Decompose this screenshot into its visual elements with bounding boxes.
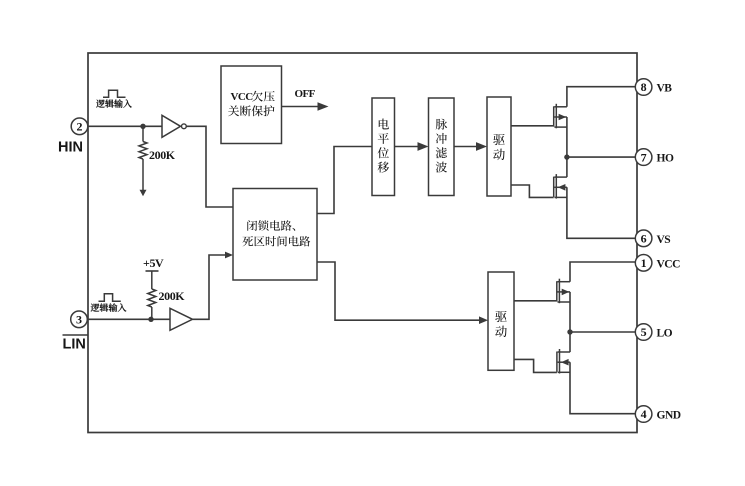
wire level-shift to pulse-filter: [395, 146, 419, 148]
+5V supply symbol: [146, 271, 159, 289]
svg-text:GND: GND: [657, 410, 681, 422]
down arrow (VSS return): [140, 190, 147, 197]
wire buffer output to latch block: [193, 255, 227, 319]
pin 5 LO: [635, 324, 652, 341]
label drive (high side): [493, 134, 505, 160]
svg-text:2: 2: [77, 120, 83, 134]
svg-text:VB: VB: [657, 83, 673, 95]
pin 7 HO: [635, 149, 652, 166]
label logic-input (HIN): [96, 99, 132, 107]
svg-text:6: 6: [641, 232, 647, 246]
svg-text:8: 8: [641, 80, 647, 94]
svg-text:HO: HO: [657, 153, 674, 165]
svg-text:OFF: OFF: [295, 88, 316, 100]
pin 8 VB: [635, 79, 652, 96]
label latch-circuit line1: [247, 220, 295, 231]
svg-text:3: 3: [76, 313, 82, 327]
label drive (low side): [495, 311, 507, 337]
transistor Q4 (low-side N-ch): [557, 349, 570, 374]
svg-text:200K: 200K: [159, 289, 186, 303]
node HO: [564, 154, 569, 159]
wire OFF output: [282, 106, 321, 108]
pulse waveform symbol (HIN logic input): [103, 90, 126, 97]
buffer U2 (LIN buffer): [170, 308, 193, 330]
IC boundary box: [88, 53, 637, 433]
wire LO to pin5: [570, 331, 636, 333]
node HIN junction: [140, 124, 145, 129]
pulse waveform symbol (LIN logic input): [99, 294, 121, 301]
transistor Q3 (low-side P-ch): [557, 279, 570, 304]
wire VCC rail: [570, 262, 636, 282]
resistor R1 200K (HIN pulldown): [139, 126, 147, 190]
svg-text:LO: LO: [657, 328, 673, 340]
block U8 low-side driver: [488, 272, 514, 370]
svg-text:VCC: VCC: [657, 258, 681, 270]
pin 6 VS: [635, 230, 652, 247]
label pulse-filter (vertical): [436, 119, 447, 173]
svg-text:5: 5: [641, 325, 647, 339]
label logic-input (LIN): [91, 303, 127, 311]
label dead-time-circuit line2: [242, 236, 310, 247]
arrowhead into low-side driver: [479, 316, 488, 324]
wire high driver to Q2 gate (jog): [511, 185, 554, 197]
label qianya (U4 line1): [252, 91, 275, 102]
svg-text:+5V: +5V: [143, 256, 164, 270]
block U4 VCC undervoltage shutdown protection: [221, 66, 282, 144]
block U3 latch + dead-time circuit: [233, 189, 317, 281]
wire pin3 to buffer input: [88, 318, 170, 320]
wire high driver to Q1 gate: [511, 125, 554, 127]
wire pin2 to inverter input: [88, 125, 162, 127]
svg-text:200K: 200K: [149, 148, 176, 162]
svg-text:HIN: HIN: [58, 140, 83, 156]
node LO: [567, 329, 572, 334]
svg-text:LIN: LIN: [63, 337, 86, 353]
block U6 pulse filter: [429, 98, 455, 196]
label guanduan-baohu (U4 line2): [228, 105, 274, 116]
arrowhead into latch block: [225, 252, 233, 259]
label LIN with overline: [63, 335, 89, 353]
wire latch to low-side driver: [317, 262, 480, 320]
pin 3 /LIN: [71, 311, 88, 328]
wire low driver to Q3 gate: [514, 300, 557, 302]
wire VS net: [567, 187, 636, 238]
node LIN junction: [148, 317, 153, 322]
label level-shift (vertical): [378, 119, 390, 173]
svg-text:VS: VS: [657, 234, 671, 246]
wire LO net vertical: [569, 292, 571, 352]
wire latch to level-shift: [317, 147, 372, 214]
wire HO net vertical: [566, 117, 568, 177]
block U7 high-side driver: [487, 97, 511, 196]
svg-text:1: 1: [641, 256, 647, 270]
wire pulse-filter to high driver: [454, 146, 477, 148]
wire low driver to Q4 gate (jog): [514, 359, 557, 372]
svg-text:VCC: VCC: [231, 91, 254, 103]
wire HO to pin7: [567, 156, 636, 158]
pin 4 GND: [635, 406, 652, 423]
wire GND net: [570, 362, 636, 414]
wire inverter output to latch block: [186, 126, 233, 207]
block U5 level shift: [372, 98, 395, 196]
pin 2 HIN: [71, 118, 88, 135]
pin 1 VCC: [635, 254, 652, 271]
arrowhead OFF: [318, 102, 329, 111]
transistor Q1 (high-side P-ch): [554, 104, 567, 129]
inverter U1 (HIN buffer): [162, 115, 186, 137]
resistor R2 200K (LIN pullup): [148, 289, 156, 319]
arrowhead into high driver: [476, 142, 487, 151]
svg-text:4: 4: [641, 407, 647, 421]
transistor Q2 (high-side N-ch): [554, 174, 567, 199]
svg-text:7: 7: [641, 150, 647, 164]
wire VB rail: [567, 87, 636, 107]
arrowhead into pulse-filter: [418, 142, 429, 151]
